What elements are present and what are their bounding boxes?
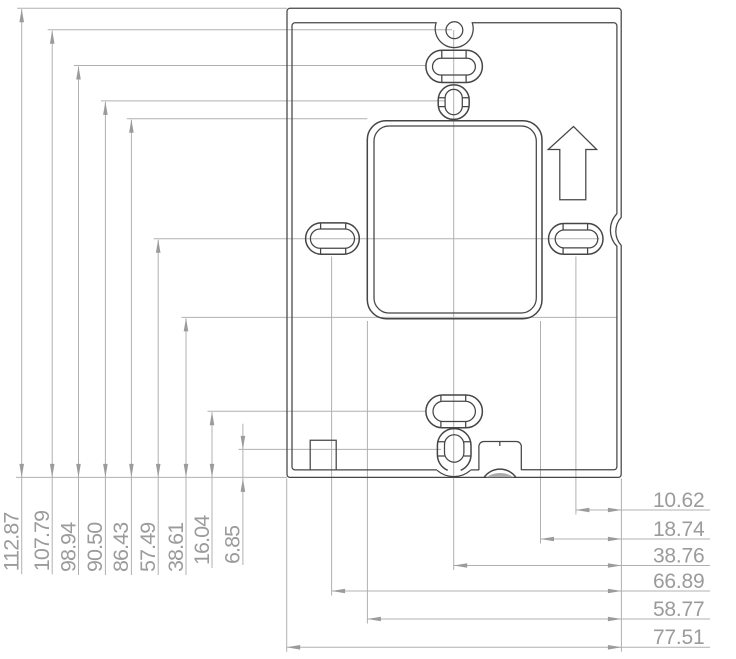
right middle slot knockout [549, 224, 604, 255]
svg-text:58.77: 58.77 [653, 598, 705, 621]
bottom datum extension line (left) [16, 476, 287, 478]
horizontal dimension 38.76 [454, 544, 710, 568]
svg-text:90.50: 90.50 [83, 522, 107, 572]
bottom right clip feature [479, 442, 521, 478]
top vertical obround knockout [438, 85, 469, 120]
horizontal dimension 18.74 [541, 518, 711, 542]
bottom horizontal obround knockout [426, 395, 483, 428]
svg-text:16.04: 16.04 [190, 515, 214, 565]
svg-text:112.87: 112.87 [0, 513, 24, 572]
vertical dimension 90.50 [83, 101, 445, 575]
svg-text:57.49: 57.49 [136, 523, 160, 572]
extension line right slot center [575, 257, 577, 515]
svg-text:38.76: 38.76 [653, 544, 705, 567]
top horizontal obround knockout [426, 50, 483, 82]
svg-text:6.85: 6.85 [221, 525, 245, 564]
extension line left slot center [331, 257, 333, 596]
top mounting hole circle [446, 22, 463, 39]
vertical dimension 6.85 [221, 424, 441, 565]
svg-text:86.43: 86.43 [109, 522, 133, 572]
plate inner outline [292, 23, 617, 470]
bottom edge skirt arc under vertical obround [437, 470, 470, 476]
vertical centerline [453, 30, 455, 570]
horizontal dimension 10.62 [576, 489, 710, 513]
bottom left square notch [310, 440, 336, 470]
orientation arrow symbol [548, 127, 597, 200]
vertical dimension 57.49 [136, 239, 599, 575]
central rectangular opening [367, 121, 542, 319]
vertical dimension 86.43 [109, 119, 367, 575]
horizontal dimension 66.89 [332, 570, 710, 594]
vertical dimension 112.87 [0, 8, 287, 574]
horizontal dimension 58.77 [367, 598, 710, 622]
svg-text:107.79: 107.79 [30, 511, 54, 571]
vertical dimension 98.94 [56, 66, 426, 576]
right datum extension line (bottom) [620, 479, 622, 652]
horizontal dimension 77.51 [287, 626, 710, 650]
svg-text:38.61: 38.61 [164, 523, 188, 572]
vertical dimension 38.61 [164, 317, 617, 575]
svg-text:77.51: 77.51 [653, 626, 705, 649]
vertical dimension 16.04 [190, 411, 426, 568]
svg-text:98.94: 98.94 [56, 522, 80, 572]
svg-text:66.89: 66.89 [653, 570, 705, 593]
left middle slot knockout [306, 223, 360, 254]
svg-text:10.62: 10.62 [653, 489, 705, 512]
bottom vertical obround knockout [437, 429, 471, 471]
plate outer outline [287, 8, 621, 477]
extension line opening right edge [540, 321, 542, 544]
svg-text:18.74: 18.74 [653, 518, 705, 541]
vertical dimension 107.79 [30, 30, 452, 574]
extension line opening left edge [366, 321, 368, 624]
extension line plate left edge [286, 479, 288, 652]
